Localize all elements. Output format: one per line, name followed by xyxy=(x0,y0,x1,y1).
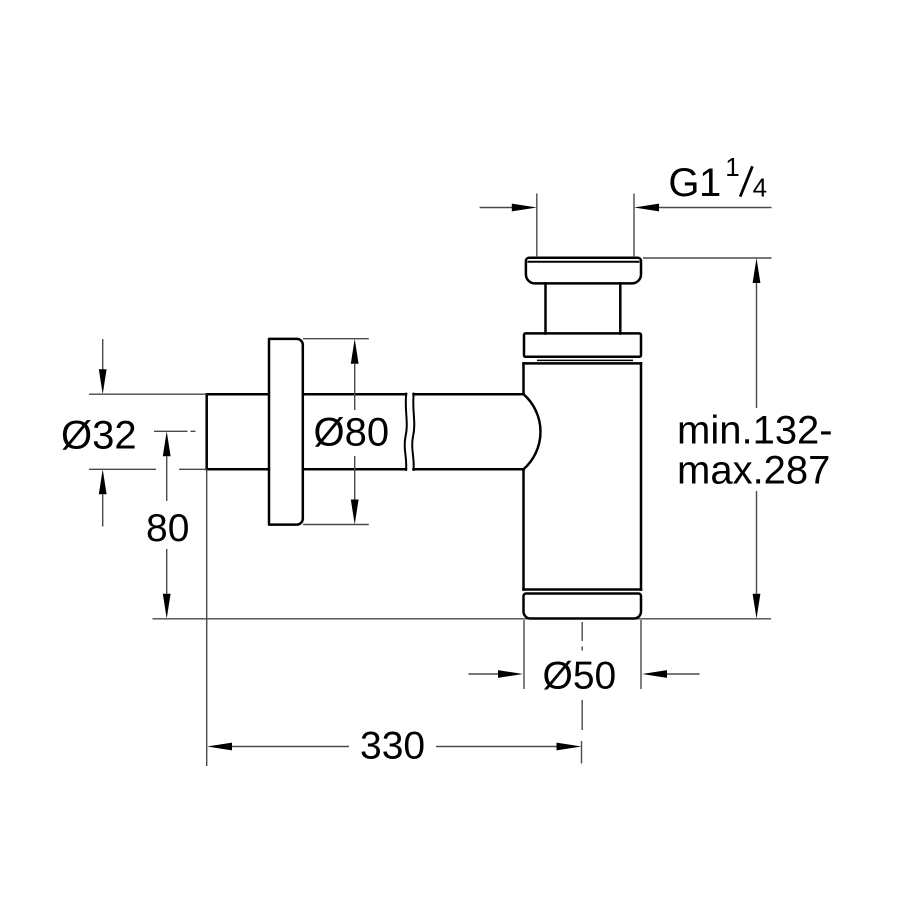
node K: pipe centerline dash-dot xyxy=(154,430,196,432)
node J: diameter 80 dimension xyxy=(303,339,389,525)
node F: bottom outlet cap xyxy=(524,594,642,619)
svg-text:Ø50: Ø50 xyxy=(543,655,617,698)
svg-text:330: 330 xyxy=(360,725,425,768)
svg-text:G: G xyxy=(668,161,699,205)
svg-text:1: 1 xyxy=(699,161,721,205)
node M: diameter 50 dimension xyxy=(468,620,699,698)
svg-text:min.132-: min.132- xyxy=(677,409,833,453)
svg-text:1: 1 xyxy=(725,152,739,182)
svg-text:80: 80 xyxy=(146,507,189,550)
node D: upper union nut (flange2) xyxy=(524,333,641,356)
wire: pipe right segment xyxy=(414,394,524,469)
node A: wall flange disc xyxy=(269,339,303,525)
node I: diameter 32 dimension xyxy=(61,339,207,527)
svg-text:Ø32: Ø32 xyxy=(61,414,137,458)
wire: pipe left segment xyxy=(207,394,406,469)
node E2: inlet flange inner line xyxy=(528,261,640,263)
node O: 330 dimension xyxy=(207,469,582,767)
node B: trap body xyxy=(524,363,642,589)
svg-text:max.287: max.287 xyxy=(677,449,830,493)
wire: neck tube xyxy=(546,283,621,333)
node G: G1 1/4 dimension xyxy=(480,152,772,257)
node N: outlet centerline dash-dot xyxy=(581,622,583,730)
wire: pipe break squiggles xyxy=(405,393,415,471)
node E: top inlet flange xyxy=(526,258,641,284)
node C: body top joint line xyxy=(537,359,633,361)
svg-text:Ø80: Ø80 xyxy=(314,411,390,455)
node H: min.132-max.287 dimension xyxy=(643,258,833,619)
node L: 80 dimension xyxy=(146,431,189,619)
svg-text:4: 4 xyxy=(753,172,767,202)
wire: ground line xyxy=(153,618,772,620)
